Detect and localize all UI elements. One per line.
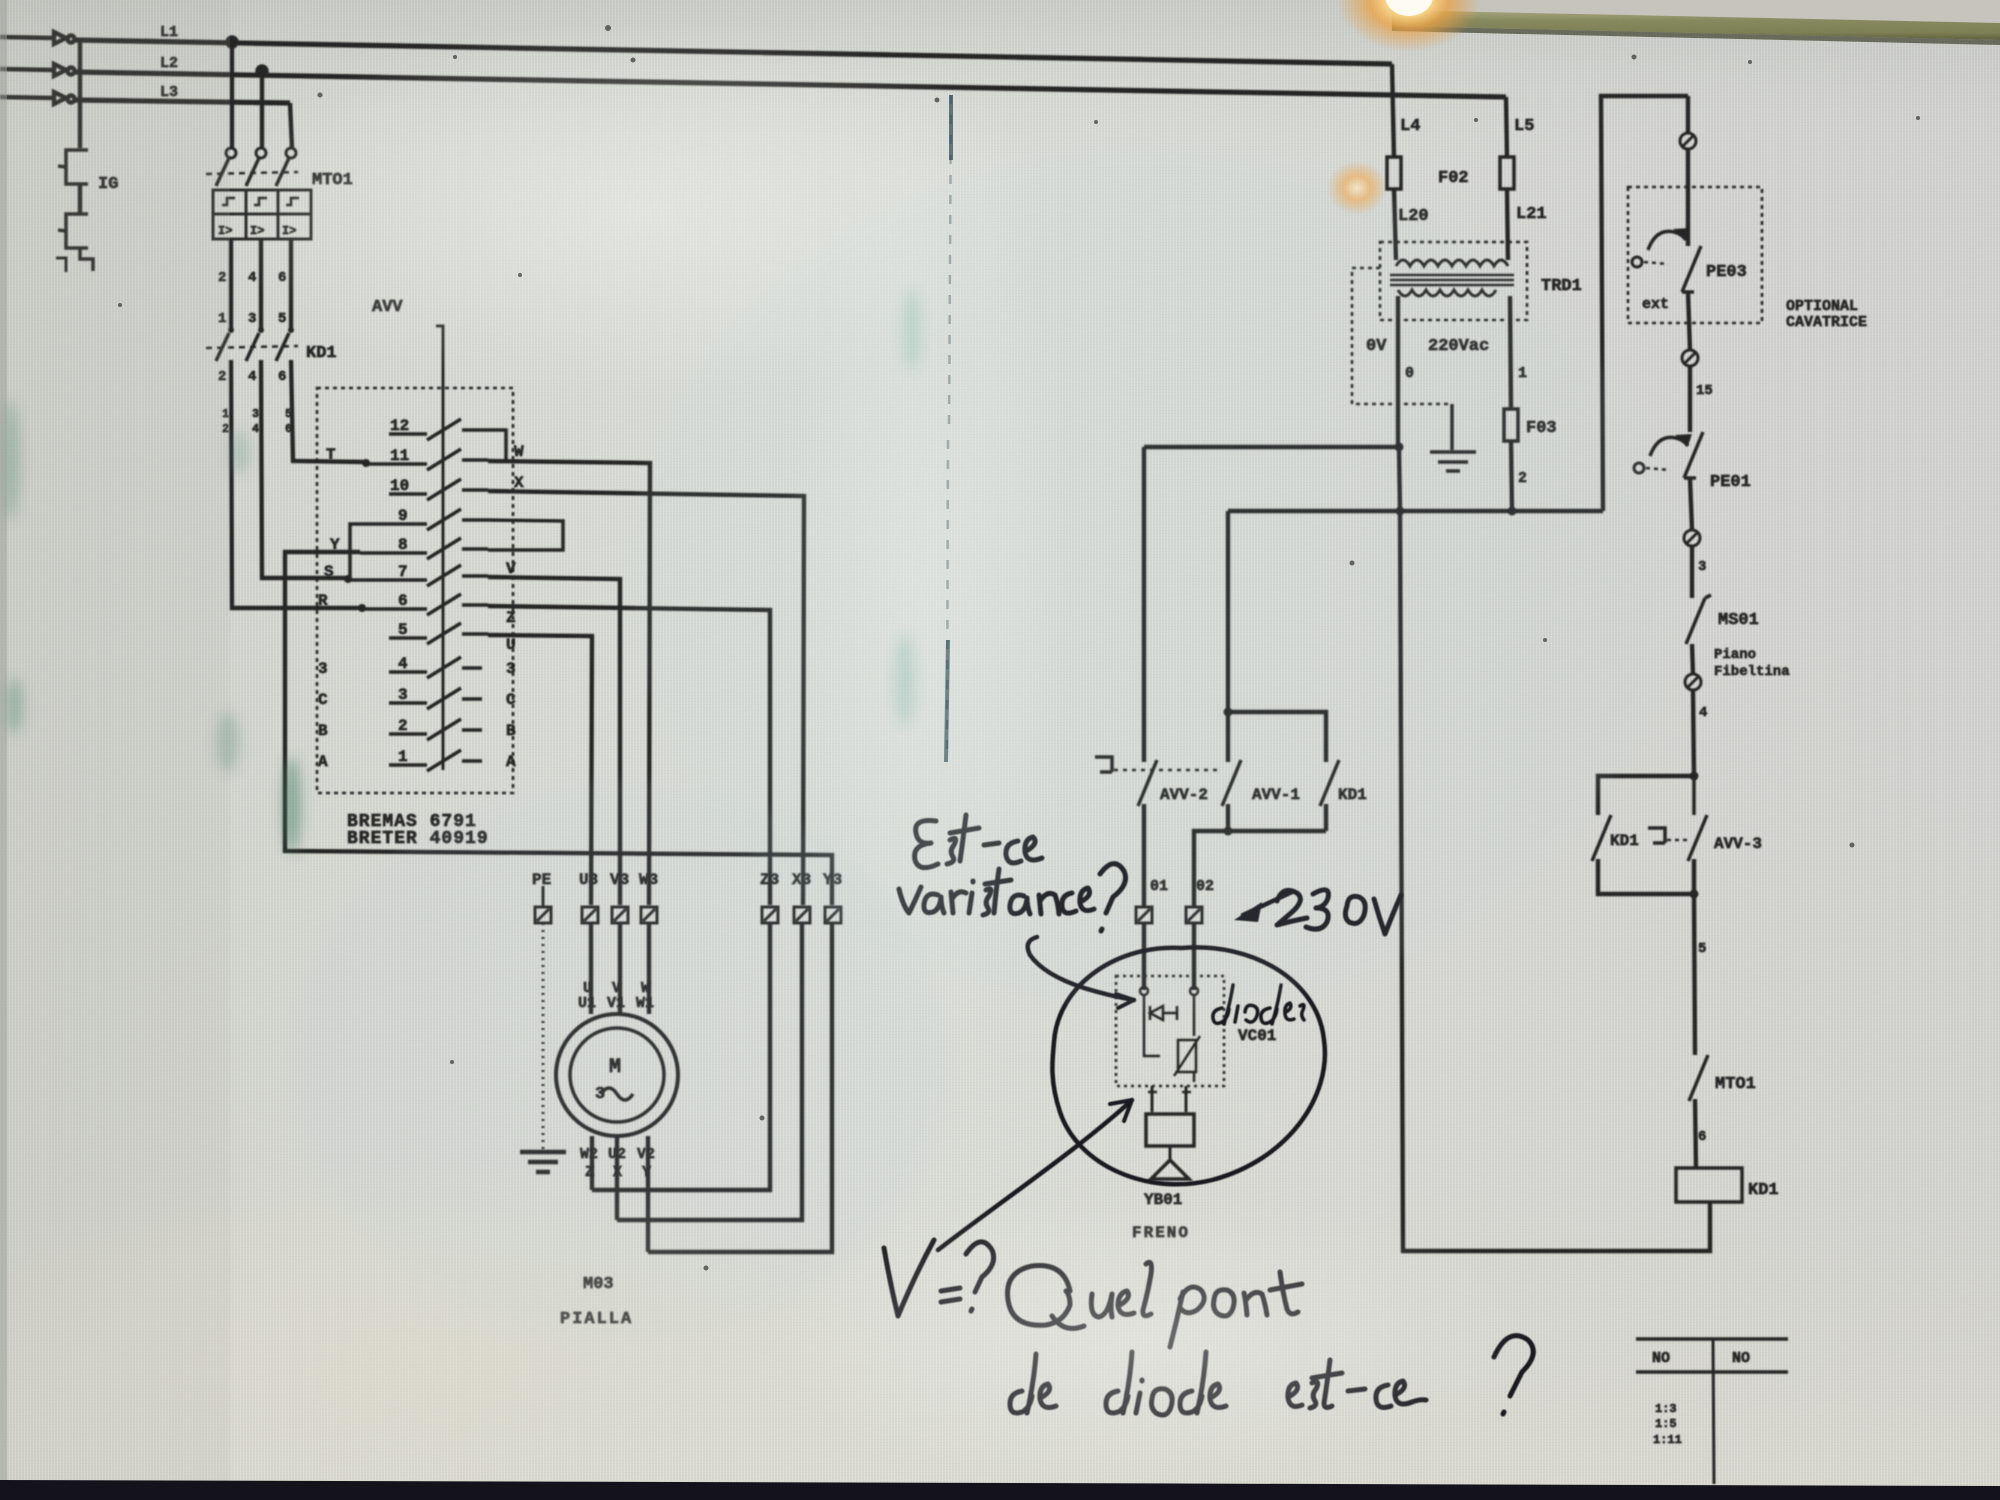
actuator cam symbol Z (AVV-2) bbox=[1095, 757, 1112, 772]
wire rectifier out 1 bbox=[1151, 1086, 1154, 1112]
wire to PE03 bbox=[1686, 96, 1690, 133]
brake YB01 terminal block bbox=[1146, 1114, 1194, 1146]
connector plug L1 bbox=[0, 32, 75, 44]
handwriting circle blob around rectifier bbox=[1052, 947, 1325, 1184]
wire F03 to bus bbox=[1511, 441, 1512, 511]
wire to MS01 bbox=[1690, 546, 1694, 598]
handwriting "Quel pont" bbox=[1008, 1262, 1303, 1347]
switch PE03 arrow bbox=[1648, 231, 1686, 250]
ground TRD1 bbox=[1430, 404, 1476, 471]
labels MTO1 I> cells bbox=[218, 224, 296, 238]
wire AVV-2 to terminal 01 bbox=[1142, 804, 1146, 907]
handwriting "de diode est-ce ?" bbox=[1010, 1336, 1533, 1415]
rectifier links bbox=[1144, 1030, 1194, 1082]
wire L1 to MTO1 pole1 bbox=[230, 42, 234, 148]
wire U to motor U3 bbox=[488, 635, 592, 905]
drum contact row 7 bbox=[347, 565, 488, 586]
node F03/bus bbox=[1508, 507, 1517, 516]
breaker MTO1 linkage bbox=[206, 172, 298, 174]
wire L4 drop bbox=[1392, 64, 1394, 157]
wire PE to ground (dashed) bbox=[542, 923, 545, 1150]
drum contact row 8 bbox=[360, 538, 488, 559]
rectifier input pins bbox=[1140, 987, 1148, 995]
wire Y loop to motor Y3 bbox=[285, 552, 832, 905]
wire control riser bbox=[1601, 96, 1688, 511]
transformer TRD1 box (dashed) bbox=[1380, 242, 1527, 320]
wire L2 to MTO1 pole2 bbox=[260, 71, 264, 148]
handwriting bbox=[884, 815, 1533, 1415]
wire to parallel pair bbox=[1693, 690, 1694, 776]
handwriting arrow 230V bbox=[1243, 892, 1292, 915]
labels KD1 out pins bbox=[218, 369, 286, 385]
rectifier out pins bbox=[1148, 1091, 1191, 1094]
wire KD1 out to drum T bbox=[291, 360, 365, 462]
node R bbox=[358, 604, 366, 612]
bottom dark band bbox=[0, 1480, 2000, 1500]
node T bbox=[362, 459, 370, 467]
terminal Z3 bbox=[762, 907, 778, 923]
flash glare small bbox=[1327, 161, 1387, 215]
wire W to motor W3 bbox=[488, 461, 650, 905]
wire Y3 to V2 bbox=[648, 923, 832, 1252]
contactor KD1 linkage bbox=[206, 346, 298, 348]
switch PE01 contact bbox=[1684, 432, 1703, 478]
green stains bbox=[0, 290, 920, 853]
drum contact row 1 bbox=[389, 750, 482, 771]
linkage dashes AVV-2 bbox=[1114, 769, 1222, 772]
drum contact row 11 bbox=[365, 449, 488, 470]
wire MTO1 out 2 bbox=[229, 239, 233, 328]
node L2/MTO1 bbox=[258, 67, 267, 76]
wire AVV-1 bottom bbox=[1226, 804, 1230, 831]
terminal V3 bbox=[612, 907, 628, 923]
wire KD1 branch (right col) bbox=[1598, 776, 1694, 815]
drum contact row 4 bbox=[389, 657, 482, 678]
handwriting "V=?" bbox=[884, 1240, 994, 1316]
wire KD1 out to drum S bbox=[261, 360, 347, 578]
flash glare top bbox=[1337, 0, 1481, 52]
node L1/MTO1 bbox=[228, 38, 237, 47]
contact AVV-2 bbox=[1138, 760, 1157, 806]
wire MTO1 out 4 bbox=[259, 239, 263, 328]
breaker MTO1 contact arms bbox=[216, 158, 289, 186]
wire to MTO1 aux bbox=[1694, 859, 1695, 1055]
wire AVV-2 branch bbox=[1142, 447, 1146, 762]
wire return bus down bbox=[1399, 447, 1400, 511]
handwriting "230 V" bbox=[1277, 890, 1401, 934]
wire to PE01 bbox=[1688, 366, 1692, 432]
wire KD1 branch bottom bbox=[1324, 804, 1328, 831]
switch AVV drum BREMAS outline (dashed) bbox=[317, 388, 513, 793]
wire 01 to rectifier bbox=[1142, 923, 1146, 990]
node pair top bbox=[1690, 772, 1699, 781]
switch PE03 actuator circle bbox=[1632, 257, 1668, 267]
wire KD1 out to drum R bbox=[231, 360, 361, 608]
switch PE03 box (dashed) bbox=[1628, 187, 1762, 323]
wire KD1 branch bottom (right col) bbox=[1598, 859, 1694, 894]
breaker MTO1 pole terminals bbox=[226, 148, 296, 158]
wire Z3 to W2 bbox=[592, 923, 770, 1190]
node secondary 0 / brake A bbox=[1395, 443, 1404, 452]
wire brake feed A (from return bus) bbox=[1144, 445, 1399, 449]
olive bar bbox=[1392, 10, 2000, 40]
dark specks bbox=[118, 25, 1920, 1271]
motor top terminal labels bbox=[532, 871, 842, 889]
terminal W3 bbox=[641, 907, 657, 923]
photo left edge shade bbox=[0, 0, 7, 1500]
thermal element symbols bbox=[222, 198, 299, 205]
switch PE01 arrow bbox=[1650, 437, 1688, 456]
motor M03 circle bbox=[556, 1014, 678, 1136]
drum contact row 9 bbox=[368, 509, 488, 530]
terminal circle 3 bbox=[1684, 530, 1700, 546]
wire U3 to motor bbox=[589, 923, 593, 1014]
wire IG drop from L1 bbox=[78, 41, 82, 148]
terminal 02 bbox=[1186, 907, 1202, 923]
node pair bottom bbox=[1690, 890, 1699, 899]
wire PE stub bbox=[542, 886, 545, 907]
secondary 0V dashed box bbox=[1352, 268, 1452, 404]
wire X3 to U2 bbox=[617, 923, 802, 1220]
wire PE01 out bbox=[1690, 478, 1692, 530]
table header lines bbox=[1636, 1339, 1788, 1372]
drum right letters bbox=[506, 443, 524, 771]
terminal PE bbox=[535, 907, 551, 923]
contact AVV-1 bbox=[1222, 760, 1241, 806]
contact AVV-3 bbox=[1688, 776, 1707, 861]
terminal X3 bbox=[794, 907, 810, 923]
switch-disconnect IG pole 1 bbox=[58, 150, 88, 184]
fuse F03 bbox=[1504, 409, 1518, 441]
wire MS01 out bbox=[1692, 644, 1693, 674]
drum row numbers bbox=[390, 417, 409, 766]
wire rows 9-8 right bracket bbox=[488, 520, 563, 550]
wire return bus to KD1 coil loop bbox=[1400, 511, 1710, 1251]
switch-disconnect IG pole 2 bbox=[58, 214, 88, 248]
contact KD1 (right col) bbox=[1592, 815, 1611, 861]
node AVV-1 top bbox=[1224, 708, 1233, 717]
labels MTO1 out pins bbox=[218, 270, 286, 286]
drum contact row 5 bbox=[389, 623, 488, 644]
wire coil bottom bbox=[1709, 1202, 1711, 1251]
wire MTO1 out 6 bbox=[289, 239, 293, 328]
wire L5 to primary bbox=[1507, 189, 1508, 260]
terminal 01 bbox=[1136, 907, 1152, 923]
wire AVV-1 branch bbox=[1226, 511, 1230, 762]
wire L4 to primary bbox=[1394, 189, 1396, 260]
wire V3 to motor bbox=[618, 923, 622, 1014]
connector plug L2 bbox=[0, 64, 75, 76]
wire motor W2 bbox=[590, 1136, 594, 1190]
terminal U3 bbox=[582, 907, 598, 923]
drum contact row 12 bbox=[389, 419, 488, 440]
contact KD1 (brake) bbox=[1320, 760, 1339, 806]
diode D2 bbox=[1144, 995, 1194, 1030]
fuse F02a bbox=[1387, 157, 1401, 189]
olive bar shadow bbox=[1392, 26, 2000, 45]
breaker MTO1 thermal box bbox=[213, 190, 311, 239]
ground motor PE bbox=[520, 1152, 566, 1172]
wire L2 bus bbox=[75, 72, 1506, 97]
drum contact row 2 bbox=[389, 719, 482, 740]
crease line bbox=[947, 95, 951, 760]
transformer core bbox=[1390, 275, 1514, 285]
transformer primary winding bbox=[1396, 260, 1508, 266]
fuse F02b bbox=[1500, 157, 1514, 189]
diode D1 bbox=[1150, 1006, 1177, 1020]
wire MTO1 aux to coil bbox=[1695, 1099, 1696, 1168]
handwriting "diodes" bbox=[1213, 985, 1304, 1024]
contact MTO1 aux bbox=[1689, 1055, 1708, 1101]
labels KD1 in pins bbox=[218, 311, 286, 327]
wire secondary 1 bbox=[1510, 296, 1511, 409]
handwriting arrow to brake rectifier bbox=[938, 1100, 1132, 1250]
wire V to motor V3 bbox=[488, 577, 620, 905]
contactor KD1 arms bbox=[216, 333, 289, 361]
node return/secondary cross bbox=[1396, 507, 1405, 516]
drum contact row 6 bbox=[361, 594, 488, 615]
connector plug L3 bbox=[0, 92, 75, 104]
wire L3 bus bbox=[75, 100, 290, 103]
handwriting "Est-ce" bbox=[915, 815, 1042, 868]
labels wire numbers bbox=[222, 407, 292, 436]
terminal Y3 bbox=[825, 907, 841, 923]
coil KD1 bbox=[1676, 1168, 1742, 1202]
motor winding labels bottom bbox=[580, 1146, 655, 1181]
olive bar highlight above bbox=[1392, 0, 2000, 23]
table divider bbox=[1713, 1339, 1714, 1484]
linkage dashes AVV-3 bbox=[1667, 839, 1688, 842]
lighting: bright patch above drum bbox=[220, 20, 1060, 400]
brake stem bbox=[1169, 1146, 1172, 1160]
wire brake feed B (from secondary bus) bbox=[1228, 509, 1603, 513]
moire tint center bbox=[630, 150, 1670, 1010]
wire IG link bbox=[78, 184, 82, 214]
wire motor V2 bbox=[646, 1136, 650, 1252]
transformer secondary winding bbox=[1398, 290, 1496, 296]
contactor KD1 terminals bbox=[228, 327, 294, 333]
wire X to motor X3 bbox=[488, 491, 804, 905]
switch PE03 contact bbox=[1682, 246, 1701, 292]
wire Z to motor Z3 bbox=[488, 606, 770, 905]
wire IG tail bbox=[80, 248, 93, 271]
wire PE03 out bbox=[1688, 292, 1690, 350]
wire into PE03 box bbox=[1686, 149, 1690, 246]
drum contact row 10 bbox=[389, 479, 488, 500]
wire L1 bus bbox=[75, 40, 1392, 64]
switch AVV shaft bbox=[436, 326, 443, 770]
motor sine symbol bbox=[601, 1088, 633, 1100]
terminal circle top bbox=[1680, 133, 1696, 149]
wire motor U2 bbox=[615, 1136, 619, 1220]
wire L3 to MTO1 pole3 bbox=[290, 103, 292, 148]
wire row9 jog to S bbox=[350, 524, 368, 578]
wire 02 to rectifier bbox=[1192, 923, 1196, 990]
wire W3 to motor bbox=[647, 923, 651, 1014]
IG tail tick bbox=[56, 258, 66, 272]
drum left letters bbox=[318, 446, 340, 771]
wire brake join bbox=[1194, 831, 1326, 907]
wire secondary 0 bbox=[1396, 296, 1400, 447]
drum contact row 3 bbox=[389, 688, 482, 709]
wire rows 12-11 right bracket bbox=[488, 430, 506, 461]
switch MS01 contact bbox=[1686, 595, 1711, 644]
wire to KD1 parallel branch bbox=[1228, 712, 1326, 762]
rectifier VC01 box (dashed) bbox=[1116, 976, 1224, 1086]
table refs bbox=[1653, 1402, 1682, 1447]
wire rectifier out 2 bbox=[1185, 1086, 1188, 1112]
brake coil triangle bbox=[1151, 1160, 1189, 1179]
node S bbox=[344, 575, 352, 583]
handwriting "varistance?" bbox=[899, 864, 1126, 931]
handwriting arrow to varistor bbox=[1028, 937, 1134, 1000]
actuator cam symbol (AVV-3) bbox=[1648, 828, 1665, 843]
wire L5 drop bbox=[1506, 97, 1507, 157]
varistor symbol bbox=[1174, 1036, 1200, 1076]
terminal circle 4 bbox=[1685, 674, 1701, 690]
switch PE01 actuator circle bbox=[1634, 463, 1670, 473]
terminal circle 15 bbox=[1682, 350, 1698, 366]
node brake join bbox=[1224, 827, 1233, 836]
motor winding labels top bbox=[578, 980, 654, 1012]
